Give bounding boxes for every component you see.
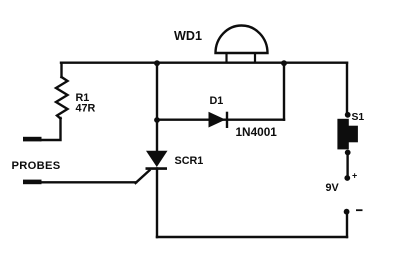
svg-text:+: +: [352, 171, 357, 181]
switch S1 top terminal dot: [345, 112, 351, 118]
svg-text:D1: D1: [210, 95, 224, 107]
wire right vertical top to switch: [346, 63, 348, 114]
wire bottom rail: [157, 236, 347, 238]
switch S1 body: [337, 119, 348, 150]
wire gate diagonal: [136, 170, 150, 183]
wire gate horizontal from probe: [41, 181, 136, 183]
svg-text:1N4001: 1N4001: [236, 125, 278, 139]
wire middle vertical anode: [156, 63, 158, 152]
switch S1 bottom terminal dot: [345, 150, 351, 156]
diode D1 cathode bar: [226, 112, 228, 128]
wire middle vertical cathode to bottom: [156, 169, 158, 238]
node dot diode-left junction: [154, 117, 160, 123]
wire right lower vertical to minus terminal: [346, 214, 348, 237]
SCR1 triangle: [146, 151, 168, 167]
svg-text:47R: 47R: [76, 102, 96, 114]
svg-text:PROBES: PROBES: [12, 160, 61, 172]
svg-text:SCR1: SCR1: [175, 155, 204, 167]
label minus sign: [356, 209, 363, 211]
wire resistor bottom lead: [41, 118, 61, 140]
probe terminal bar lower: [23, 180, 42, 185]
SCR1 cathode bar: [146, 167, 168, 170]
resistor R1: [56, 77, 68, 119]
wire diode branch horizontal: [157, 118, 284, 120]
battery minus terminal dot: [344, 209, 350, 215]
node dot top-right junction: [281, 60, 287, 66]
buzzer WD1 dome: [216, 25, 268, 53]
diode D1 triangle: [209, 112, 226, 128]
svg-text:WD1: WD1: [174, 29, 202, 43]
switch S1 button nub: [349, 126, 358, 143]
wire switch to plus terminal: [346, 153, 348, 177]
wire left vertical top lead: [60, 63, 62, 77]
wire top rail: [61, 62, 347, 64]
node dot top-middle junction: [154, 60, 160, 66]
battery plus terminal dot: [344, 175, 350, 181]
probe terminal bar upper: [23, 137, 42, 142]
buzzer WD1 left leg: [225, 53, 227, 63]
wire right mid vertical: [283, 63, 285, 120]
svg-text:9V: 9V: [326, 182, 340, 194]
svg-text:S1: S1: [352, 112, 365, 123]
buzzer WD1 right leg: [254, 53, 256, 63]
